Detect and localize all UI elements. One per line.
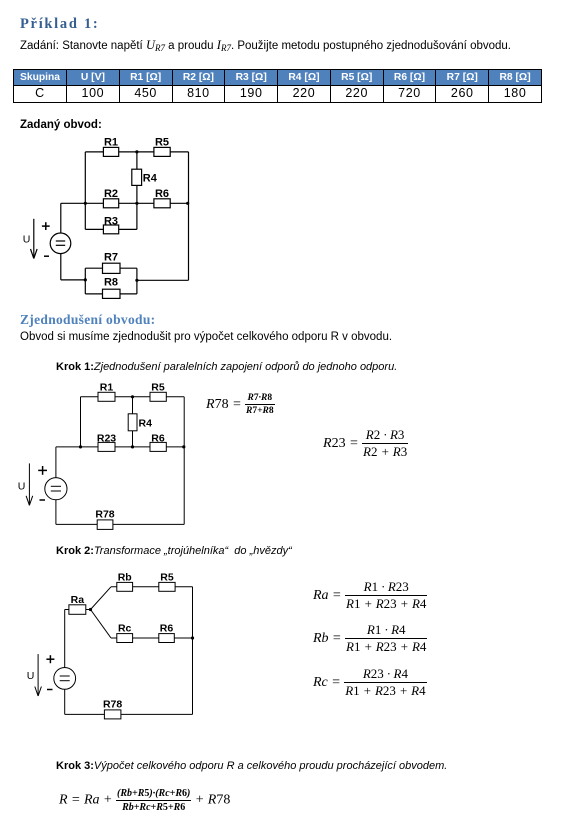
svg-text:R1: R1 [104, 137, 118, 149]
svg-text:R5: R5 [151, 381, 165, 393]
svg-text:R6: R6 [160, 623, 174, 635]
svg-text:Ra: Ra [71, 594, 85, 606]
svg-text:R4: R4 [139, 418, 153, 430]
svg-text:R4: R4 [143, 173, 158, 185]
svg-text:R3: R3 [104, 216, 118, 228]
svg-text:R78: R78 [95, 509, 114, 521]
svg-text:U: U [18, 481, 26, 493]
svg-text:R6: R6 [151, 433, 165, 445]
svg-text:R78: R78 [103, 699, 122, 711]
svg-text:R6: R6 [155, 188, 169, 200]
svg-text:Rc: Rc [118, 623, 132, 635]
svg-text:R8: R8 [104, 277, 118, 289]
svg-text:U: U [23, 234, 31, 246]
svg-text:Rb: Rb [118, 572, 132, 584]
svg-text:R5: R5 [155, 137, 169, 149]
svg-text:R5: R5 [160, 572, 174, 584]
svg-text:R2: R2 [104, 188, 118, 200]
svg-text:R1: R1 [100, 381, 114, 393]
svg-text:R7: R7 [104, 252, 118, 264]
svg-text:R23: R23 [97, 433, 116, 445]
svg-text:U: U [27, 670, 35, 682]
